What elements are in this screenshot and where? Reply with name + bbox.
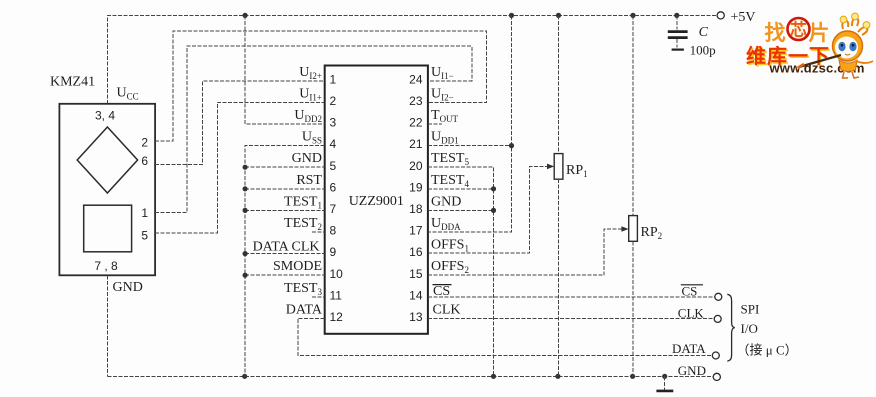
svg-text:13: 13: [409, 310, 423, 324]
svg-text:4: 4: [330, 137, 337, 151]
arrow RP1 wiper: [547, 164, 554, 170]
svg-text:TEST1: TEST1: [284, 194, 322, 210]
svg-text:UZZ9001: UZZ9001: [349, 194, 404, 209]
svg-text:5: 5: [330, 159, 337, 173]
svg-text:6: 6: [141, 154, 148, 168]
wire ground bus left vertical USS: [245, 146, 325, 377]
svg-text:15: 15: [409, 267, 423, 281]
node GND junction ground stub: [662, 374, 667, 379]
node +5V junction at x558: [556, 13, 561, 18]
node +5V junction at x245: [243, 13, 248, 18]
svg-text:11: 11: [330, 288, 343, 302]
svg-text:片: 片: [809, 22, 830, 45]
sensor KMZ41 diamond bridge: [77, 127, 137, 193]
brace SPI group: [727, 294, 735, 361]
svg-text:7 , 8: 7 , 8: [94, 259, 118, 273]
svg-text:I/O: I/O: [741, 321, 758, 336]
sensor KMZ41 square bridge: [84, 205, 132, 252]
svg-text:18: 18: [409, 202, 423, 216]
svg-text:RST: RST: [296, 173, 322, 188]
svg-text:CLK: CLK: [678, 305, 705, 320]
svg-text:10: 10: [330, 267, 344, 281]
svg-text:22: 22: [409, 116, 423, 130]
wire KMZ41 pin6 to U1 pin1: [155, 81, 325, 165]
svg-text:16: 16: [409, 245, 423, 259]
svg-text:19: 19: [409, 180, 423, 194]
pin numbers U1 right 24-13: [409, 72, 423, 324]
wire U1 pin22 TOUT stub: [428, 123, 442, 125]
svg-text:1: 1: [141, 206, 148, 220]
pin numbers U1 left 1-12: [330, 72, 344, 324]
svg-text:5: 5: [141, 228, 148, 242]
terminal GND: [678, 363, 721, 381]
wire U1 pin18 GND: [428, 208, 496, 213]
watermark mascot: [798, 13, 874, 78]
wire +5V top rail: [107, 15, 717, 103]
svg-text:DATA: DATA: [286, 302, 323, 317]
svg-text:OFFS1: OFFS1: [431, 238, 469, 254]
svg-text:1: 1: [330, 72, 337, 86]
node +5V junction at x511: [509, 13, 514, 18]
node +5V junction capacitor tap: [674, 13, 679, 18]
svg-text:3, 4: 3, 4: [95, 109, 115, 123]
svg-text:7: 7: [330, 202, 337, 216]
svg-text:TEST3: TEST3: [284, 281, 322, 297]
wire U1 pin9 DATA CLK: [243, 251, 325, 256]
svg-text:9: 9: [330, 245, 337, 259]
svg-text:2: 2: [330, 94, 337, 108]
wire U1 pin6 RST: [243, 186, 325, 191]
svg-text:CS: CS: [682, 283, 698, 298]
svg-text:14: 14: [409, 288, 423, 302]
terminal DATA: [672, 341, 719, 359]
wire U1 pin14 CS to SPI: [428, 296, 715, 298]
svg-text:TEST5: TEST5: [431, 151, 469, 167]
wire KMZ41 pin1 to U1 pin24: [155, 46, 472, 213]
svg-text:2: 2: [141, 135, 148, 149]
terminal CS: [681, 283, 722, 300]
watermark dzsc logo: [746, 18, 865, 76]
svg-text:+5V: +5V: [731, 10, 756, 25]
svg-text:CLK: CLK: [433, 302, 461, 317]
node GND junction x558: [555, 374, 560, 379]
svg-text:3: 3: [330, 116, 337, 130]
potentiometer RP2: [629, 15, 662, 376]
wire KMZ41 pin5 to U1 pin2: [155, 102, 325, 233]
svg-text:KMZ41: KMZ41: [50, 75, 95, 90]
svg-text:C: C: [699, 25, 709, 40]
wire KMZ41 GND lead: [106, 275, 108, 376]
ground symbol: [656, 376, 673, 391]
svg-text:TEST4: TEST4: [431, 173, 469, 189]
wire U1 pin7 TEST1: [243, 208, 325, 213]
wire U1 pin13 CLK to SPI: [428, 317, 714, 319]
wire U1 pin16 OFFS1 to RP1 wiper: [428, 166, 550, 253]
svg-text:6: 6: [330, 180, 337, 194]
svg-text:GND: GND: [113, 280, 143, 295]
arrow RP2 wiper: [621, 226, 628, 232]
svg-text:SPI: SPI: [741, 302, 760, 317]
wire +5V to U1 pin3 UDD2: [245, 15, 325, 124]
wire U1 pin15 OFFS2 to RP2 wiper: [428, 229, 624, 275]
wire U1 pin19 TEST4: [428, 186, 496, 191]
wire +5V to U1 pin21 UDD1 and pin17 UDDA: [428, 15, 514, 232]
svg-text:23: 23: [409, 94, 423, 108]
wire U1 pin8 TEST2 stub: [312, 231, 325, 233]
node GND junction x493: [491, 374, 496, 379]
wire KMZ41 pin2 to U1 pin23: [155, 31, 486, 141]
node GND junction x245: [242, 374, 247, 379]
svg-text:100p: 100p: [690, 42, 716, 57]
svg-text:8: 8: [330, 224, 337, 238]
wire U1 pin11 TEST3 stub: [312, 296, 325, 298]
svg-text:DATA CLK: DATA CLK: [253, 239, 320, 254]
pin 14 CS overline: [433, 284, 452, 286]
svg-text:SMODE: SMODE: [273, 259, 322, 274]
wire U1 pin20 TEST5 to ground bus: [428, 167, 494, 376]
svg-text:找: 找: [765, 22, 786, 45]
wire GND bottom rail: [107, 375, 713, 377]
node +5V junction at x633: [630, 13, 635, 18]
svg-text:GND: GND: [431, 194, 461, 209]
potentiometer RP1: [554, 15, 587, 376]
pin labels U1 left: [253, 65, 323, 318]
wire U1 pin12 DATA to SPI: [298, 318, 712, 355]
node GND junction x633: [630, 374, 635, 379]
svg-text:芯: 芯: [790, 20, 807, 40]
svg-text:TEST2: TEST2: [284, 216, 322, 232]
svg-text:（接 μ C）: （接 μ C）: [737, 342, 798, 357]
svg-text:GND: GND: [678, 363, 706, 378]
pin labels U1 right: [431, 65, 469, 318]
svg-text:GND: GND: [292, 151, 322, 166]
label SPI I/O: [737, 302, 798, 358]
svg-text:12: 12: [330, 310, 344, 324]
svg-text:DATA: DATA: [672, 341, 706, 356]
IC U1 UZZ9001 body: [325, 66, 428, 334]
wire U1 pin5 GND: [243, 165, 325, 170]
svg-text:OFFS2: OFFS2: [431, 259, 469, 275]
capacitor C1 100p: [668, 15, 716, 57]
svg-text:17: 17: [409, 224, 423, 238]
svg-text:24: 24: [409, 72, 423, 86]
wire U1 pin10 SMODE: [243, 273, 325, 278]
sensor KMZ41 body: [50, 75, 155, 296]
terminal +5V: [717, 10, 755, 25]
svg-text:20: 20: [409, 159, 423, 173]
svg-text:21: 21: [409, 137, 423, 151]
terminal CLK: [678, 305, 721, 322]
